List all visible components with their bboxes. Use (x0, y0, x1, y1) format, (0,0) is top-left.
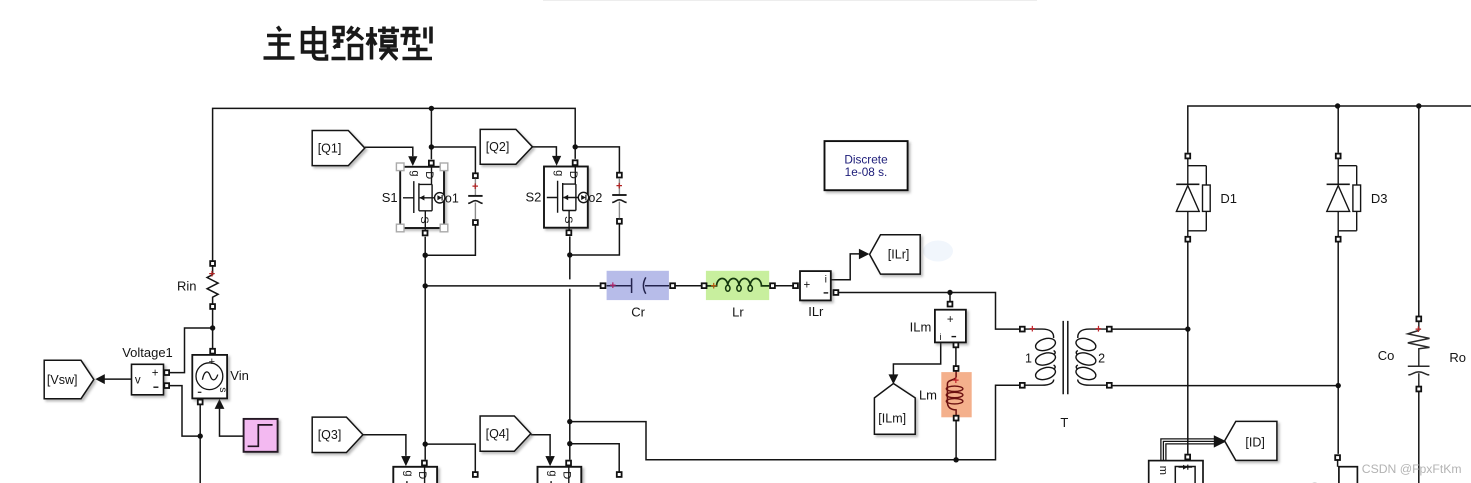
svg-text:[Q4]: [Q4] (486, 427, 510, 441)
svg-text:Co: Co (1378, 348, 1395, 363)
svg-text:[Q2]: [Q2] (486, 140, 510, 154)
svg-text:+: + (209, 269, 215, 281)
svg-text:Vin: Vin (230, 368, 249, 383)
svg-text:2: 2 (1098, 352, 1105, 366)
svg-text:+: + (1415, 324, 1421, 336)
svg-text:v: v (135, 374, 141, 386)
svg-text:i: i (825, 273, 827, 285)
svg-text:ILm: ILm (910, 319, 932, 334)
svg-text:1: 1 (1025, 352, 1032, 366)
svg-text:i: i (940, 332, 942, 343)
svg-text:[Q3]: [Q3] (318, 428, 342, 442)
svg-text:m: m (1157, 466, 1169, 475)
svg-text:+: + (710, 280, 716, 292)
svg-text:+: + (804, 280, 811, 292)
svg-text:ILr: ILr (808, 304, 824, 319)
svg-text:+: + (209, 356, 215, 368)
svg-text:[ID]: [ID] (1245, 435, 1264, 449)
svg-text:D1: D1 (1220, 191, 1237, 206)
svg-text:[ILr]: [ILr] (888, 248, 910, 262)
svg-text:s: s (217, 387, 229, 392)
svg-text:+: + (1029, 324, 1035, 336)
svg-text:[Vsw]: [Vsw] (47, 373, 78, 387)
svg-text:o1: o1 (445, 191, 459, 205)
svg-text:Cr: Cr (631, 305, 645, 320)
svg-text:+: + (947, 314, 954, 326)
svg-text:S1: S1 (382, 190, 398, 205)
svg-text:[Q1]: [Q1] (318, 141, 342, 155)
svg-text:D3: D3 (1371, 191, 1388, 206)
svg-text:+: + (152, 367, 159, 379)
svg-text:Rin: Rin (177, 279, 197, 294)
svg-text:Lm: Lm (919, 388, 937, 403)
svg-text:S2: S2 (525, 190, 541, 205)
svg-text:+: + (610, 280, 616, 292)
svg-text:+: + (953, 375, 959, 387)
svg-text:+: + (1095, 324, 1101, 336)
svg-text:Ro: Ro (1449, 350, 1466, 365)
svg-text:Voltage1: Voltage1 (122, 345, 173, 360)
svg-text:+: + (472, 181, 478, 193)
svg-text:+: + (616, 180, 622, 192)
svg-text:[ILm]: [ILm] (878, 411, 906, 425)
svg-text:1e-08 s.: 1e-08 s. (845, 165, 888, 179)
svg-text:Lr: Lr (732, 305, 744, 320)
svg-text:CSDN @FpxFtKm: CSDN @FpxFtKm (1362, 462, 1462, 476)
svg-text:o2: o2 (588, 191, 602, 205)
svg-text:T: T (1060, 415, 1068, 430)
